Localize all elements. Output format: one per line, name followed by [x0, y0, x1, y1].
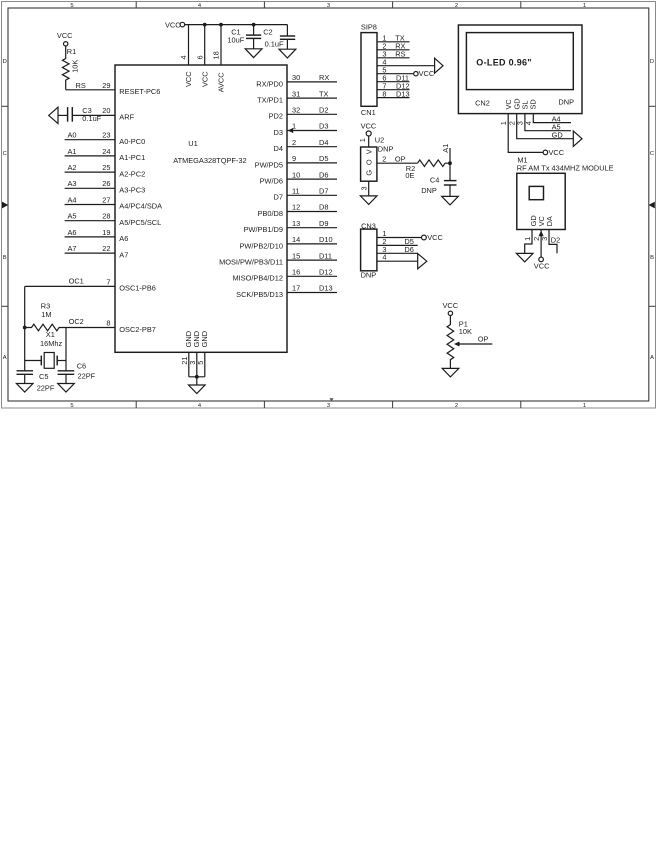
- svg-text:A0: A0: [68, 131, 77, 140]
- svg-text:10uF: 10uF: [227, 35, 244, 44]
- svg-text:3: 3: [540, 237, 549, 241]
- svg-text:ARF: ARF: [119, 113, 134, 122]
- svg-text:D13: D13: [319, 284, 333, 293]
- svg-text:SIP8: SIP8: [361, 22, 377, 31]
- svg-text:VCC: VCC: [361, 122, 377, 131]
- svg-text:0.1uF: 0.1uF: [82, 114, 101, 123]
- svg-text:VCC: VCC: [419, 69, 435, 78]
- svg-text:VCC: VCC: [57, 31, 73, 40]
- svg-text:MISO/PB4/D12: MISO/PB4/D12: [232, 274, 283, 283]
- svg-text:VCC: VCC: [165, 20, 181, 29]
- svg-text:15: 15: [292, 251, 300, 260]
- svg-text:19: 19: [102, 228, 110, 237]
- svg-text:A7: A7: [119, 250, 128, 259]
- svg-text:RX/PD0: RX/PD0: [256, 79, 283, 88]
- svg-text:1M: 1M: [41, 310, 51, 319]
- svg-text:28: 28: [102, 212, 110, 221]
- svg-text:CN2: CN2: [475, 98, 490, 107]
- svg-text:U2: U2: [375, 136, 384, 145]
- svg-text:1: 1: [583, 3, 586, 9]
- svg-text:B: B: [650, 255, 654, 261]
- svg-text:OC1: OC1: [69, 277, 84, 286]
- svg-text:D3: D3: [274, 128, 283, 137]
- svg-text:24: 24: [102, 147, 110, 156]
- svg-text:23: 23: [102, 131, 110, 140]
- svg-text:4: 4: [179, 55, 188, 59]
- svg-text:A1: A1: [441, 144, 450, 153]
- svg-text:12: 12: [292, 203, 300, 212]
- svg-text:D3: D3: [319, 122, 328, 131]
- svg-text:0.1uF: 0.1uF: [265, 39, 284, 48]
- svg-text:A3-PC3: A3-PC3: [119, 186, 145, 195]
- svg-text:18: 18: [212, 51, 221, 59]
- svg-text:PW/D6: PW/D6: [260, 177, 283, 186]
- svg-text:PD2: PD2: [269, 112, 283, 121]
- svg-text:A6: A6: [119, 234, 128, 243]
- svg-text:G: G: [364, 170, 373, 176]
- svg-text:1: 1: [583, 403, 586, 409]
- svg-text:17: 17: [292, 284, 300, 293]
- svg-text:10: 10: [292, 170, 300, 179]
- svg-text:D12: D12: [319, 268, 333, 277]
- svg-text:A3: A3: [68, 179, 77, 188]
- svg-text:X1: X1: [46, 330, 55, 339]
- svg-text:D6: D6: [319, 170, 328, 179]
- svg-text:DNP: DNP: [361, 271, 377, 280]
- svg-text:A0-PC0: A0-PC0: [119, 137, 145, 146]
- svg-text:A1-PC1: A1-PC1: [119, 153, 145, 162]
- svg-text:2: 2: [382, 155, 386, 164]
- svg-text:D10: D10: [319, 235, 333, 244]
- svg-text:5: 5: [70, 3, 73, 9]
- svg-text:11: 11: [292, 187, 300, 196]
- svg-text:26: 26: [102, 179, 110, 188]
- svg-text:RS: RS: [76, 81, 86, 90]
- svg-text:3: 3: [360, 186, 369, 190]
- svg-text:D7: D7: [274, 193, 283, 202]
- svg-text:29: 29: [102, 81, 110, 90]
- svg-text:3: 3: [327, 3, 330, 9]
- svg-text:A4/PC4/SDA: A4/PC4/SDA: [119, 202, 162, 211]
- svg-text:VCC: VCC: [549, 148, 565, 157]
- svg-text:C2: C2: [263, 27, 272, 36]
- svg-text:A2: A2: [68, 163, 77, 172]
- svg-text:MOSI/PW/PB3/D11: MOSI/PW/PB3/D11: [219, 258, 283, 267]
- svg-text:PW/PB1/D9: PW/PB1/D9: [244, 225, 283, 234]
- svg-text:10K: 10K: [459, 327, 472, 336]
- svg-text:ATMEGA328TQPF-32: ATMEGA328TQPF-32: [173, 156, 246, 165]
- svg-text:A5/PC5/SCL: A5/PC5/SCL: [119, 218, 161, 227]
- svg-text:D9: D9: [319, 219, 328, 228]
- svg-text:PB0/D8: PB0/D8: [258, 209, 283, 218]
- svg-text:DA: DA: [545, 216, 554, 226]
- svg-text:C6: C6: [77, 361, 86, 370]
- svg-text:PW/PB2/D10: PW/PB2/D10: [239, 241, 283, 250]
- svg-text:A5: A5: [68, 212, 77, 221]
- svg-text:9: 9: [292, 154, 296, 163]
- svg-text:VCC: VCC: [200, 71, 209, 87]
- svg-text:10K: 10K: [71, 60, 80, 73]
- svg-text:D6: D6: [404, 245, 413, 254]
- svg-text:GD: GD: [552, 130, 563, 139]
- svg-text:D11: D11: [319, 251, 332, 260]
- svg-text:O: O: [364, 159, 373, 165]
- svg-text:DNP: DNP: [378, 144, 394, 153]
- svg-text:D8: D8: [319, 203, 328, 212]
- svg-text:1: 1: [523, 237, 532, 241]
- svg-text:D7: D7: [319, 187, 328, 196]
- svg-text:OP: OP: [395, 155, 406, 164]
- svg-text:VCC: VCC: [427, 233, 443, 242]
- svg-text:3: 3: [327, 403, 330, 409]
- svg-text:A1: A1: [68, 147, 77, 156]
- svg-text:1: 1: [292, 122, 296, 131]
- svg-text:C5: C5: [39, 372, 48, 381]
- svg-text:32: 32: [292, 106, 300, 115]
- svg-text:8: 8: [382, 90, 386, 99]
- svg-text:TX: TX: [319, 89, 329, 98]
- svg-text:O-LED 0.96": O-LED 0.96": [476, 57, 532, 67]
- svg-text:31: 31: [292, 89, 300, 98]
- svg-text:D2: D2: [319, 106, 328, 115]
- svg-text:A6: A6: [68, 228, 77, 237]
- svg-text:D: D: [3, 59, 7, 65]
- svg-text:A7: A7: [68, 244, 77, 253]
- svg-text:6: 6: [195, 55, 204, 59]
- svg-text:V: V: [364, 149, 373, 154]
- svg-text:5: 5: [196, 361, 205, 365]
- svg-text:DNP: DNP: [421, 186, 437, 195]
- svg-text:D5: D5: [319, 154, 328, 163]
- svg-text:4: 4: [524, 121, 533, 125]
- svg-text:A: A: [3, 355, 7, 361]
- svg-text:A4: A4: [68, 195, 77, 204]
- svg-text:2: 2: [292, 138, 296, 147]
- svg-text:D4: D4: [319, 138, 328, 147]
- svg-text:20: 20: [102, 106, 110, 115]
- svg-text:8: 8: [106, 318, 110, 327]
- svg-text:SD: SD: [529, 99, 538, 109]
- svg-text:13: 13: [292, 219, 300, 228]
- svg-text:PW/PD5: PW/PD5: [255, 160, 283, 169]
- svg-text:OSC2-PB7: OSC2-PB7: [119, 325, 156, 334]
- svg-text:22PF: 22PF: [37, 383, 55, 392]
- svg-text:27: 27: [102, 195, 110, 204]
- svg-text:1: 1: [358, 138, 367, 142]
- svg-text:RX: RX: [319, 73, 329, 82]
- svg-text:B: B: [3, 255, 7, 261]
- svg-text:A2-PC2: A2-PC2: [119, 169, 145, 178]
- svg-text:OC2: OC2: [69, 317, 84, 326]
- svg-text:RF AM Tx 434MHZ MODULE: RF AM Tx 434MHZ MODULE: [517, 163, 614, 172]
- svg-text:SCK/PB5/D13: SCK/PB5/D13: [236, 290, 283, 299]
- svg-text:DNP: DNP: [558, 98, 574, 107]
- svg-text:C: C: [3, 151, 7, 157]
- svg-text:16: 16: [292, 268, 300, 277]
- svg-text:A: A: [650, 355, 654, 361]
- svg-text:RESET-PC6: RESET-PC6: [119, 87, 160, 96]
- svg-text:D13: D13: [396, 90, 410, 99]
- svg-text:C4: C4: [430, 175, 439, 184]
- svg-text:D: D: [650, 59, 654, 65]
- svg-text:5: 5: [70, 403, 73, 409]
- svg-text:C: C: [650, 151, 654, 157]
- svg-text:30: 30: [292, 73, 300, 82]
- svg-text:GND: GND: [200, 331, 209, 347]
- svg-text:OSC1-PB6: OSC1-PB6: [119, 284, 156, 293]
- svg-text:AVCC: AVCC: [217, 72, 226, 93]
- svg-text:7: 7: [106, 277, 110, 286]
- svg-text:D4: D4: [274, 144, 283, 153]
- svg-text:2: 2: [455, 403, 458, 409]
- svg-text:D2: D2: [551, 236, 560, 245]
- svg-text:0E: 0E: [405, 171, 414, 180]
- svg-text:R1: R1: [67, 47, 76, 56]
- svg-text:4: 4: [382, 253, 386, 262]
- svg-text:OP: OP: [478, 334, 489, 343]
- svg-text:25: 25: [102, 163, 110, 172]
- svg-text:VCC: VCC: [443, 301, 459, 310]
- svg-text:16Mhz: 16Mhz: [40, 339, 62, 348]
- svg-text:22: 22: [102, 244, 110, 253]
- svg-text:TX/PD1: TX/PD1: [257, 96, 283, 105]
- svg-text:CN1: CN1: [361, 108, 376, 117]
- svg-text:14: 14: [292, 235, 300, 244]
- svg-text:RS: RS: [395, 50, 405, 59]
- svg-text:22PF: 22PF: [78, 372, 96, 381]
- svg-text:VCC: VCC: [184, 71, 193, 87]
- svg-text:U1: U1: [188, 139, 197, 148]
- svg-text:VCC: VCC: [534, 262, 550, 271]
- svg-text:2: 2: [455, 3, 458, 9]
